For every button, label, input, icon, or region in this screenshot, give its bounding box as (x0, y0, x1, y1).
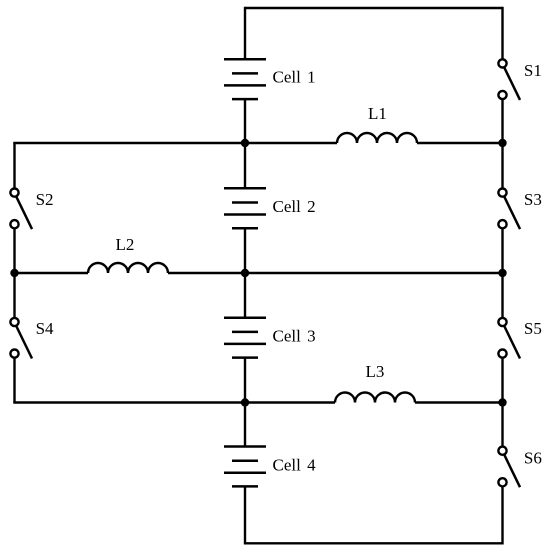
wire row B left segment (15, 272, 89, 274)
wire right column top rail to S1 (501, 7, 503, 60)
node B left junction (10, 269, 18, 277)
svg-text:Cell 1: Cell 1 (273, 68, 316, 87)
inductor L1 (337, 133, 417, 143)
wire right column S3 to S5 (501, 228, 503, 318)
wire center column cell3 to node C (244, 358, 246, 404)
wire bottom rail (245, 542, 503, 544)
wire center column node C to cell4 (244, 403, 246, 448)
node B center junction (241, 269, 249, 277)
svg-text:S3: S3 (524, 190, 542, 209)
cell Cell1 plates (224, 59, 266, 99)
wire row A left segment (15, 143, 338, 144)
svg-text:Cell 2: Cell 2 (273, 197, 316, 216)
switch S2 (10, 189, 32, 230)
switch S5 (498, 318, 520, 359)
wire center column top stub (244, 7, 246, 60)
cell Cell2 plates (224, 188, 266, 228)
wire left column row A to S2 (13, 143, 15, 189)
node B right junction (498, 269, 506, 277)
wire row B right segment (168, 272, 503, 274)
switch S1 (498, 59, 520, 100)
wire left column S4 to row C (13, 358, 15, 403)
svg-text:L2: L2 (116, 235, 135, 254)
svg-text:Cell 3: Cell 3 (273, 326, 316, 345)
svg-text:S2: S2 (36, 190, 54, 209)
svg-text:S1: S1 (524, 61, 542, 80)
wire right column S1 to S3 (501, 99, 503, 189)
svg-text:S4: S4 (36, 319, 54, 338)
svg-text:L3: L3 (366, 362, 385, 381)
wire row C right segment (415, 401, 503, 403)
switch S6 (498, 447, 520, 488)
wire left column S2 to S4 (13, 228, 15, 318)
wire center column cell1 to node A (244, 99, 246, 144)
wire center column node A to cell2 (244, 143, 246, 189)
switch S4 (10, 318, 32, 359)
wire row A right segment (417, 142, 503, 144)
node A center junction (241, 139, 249, 147)
cell Cell4 plates (224, 447, 266, 487)
switch S3 (498, 189, 520, 230)
svg-text:S5: S5 (524, 319, 542, 338)
svg-text:S6: S6 (524, 449, 542, 468)
wire right column S5 to S6 (501, 358, 503, 447)
cell Cell3 plates (224, 318, 266, 358)
svg-text:L1: L1 (368, 104, 387, 123)
node C right junction (498, 398, 506, 406)
wire top rail (245, 7, 503, 9)
svg-text:Cell 4: Cell 4 (273, 456, 317, 475)
inductor L2 (88, 263, 168, 273)
node A right junction (498, 139, 506, 147)
wire right column S6 to bottom rail (501, 486, 503, 544)
node C center junction (241, 398, 249, 406)
wire center column node B to cell3 (244, 273, 246, 319)
wire center column cell2 to node B (244, 228, 246, 274)
inductor L3 (335, 393, 415, 403)
wire row C left segment (15, 401, 336, 402)
wire center column cell4 to bottom rail (244, 486, 246, 544)
